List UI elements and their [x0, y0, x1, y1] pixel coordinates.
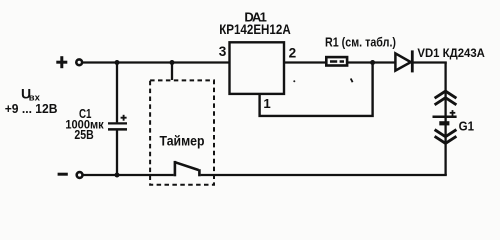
- svg-text:R1 (см. табл.): R1 (см. табл.): [325, 35, 396, 50]
- timer dashed box: [150, 80, 214, 184]
- resistor R1: [326, 57, 347, 65]
- terminal + (input): [56, 56, 82, 68]
- svg-text:G1: G1: [459, 119, 474, 133]
- junction timer stub: [170, 60, 175, 65]
- switch (timer contact): [175, 161, 200, 176]
- diode VD1: [395, 50, 412, 72]
- svg-text:VD1 КД243А: VD1 КД243А: [417, 46, 485, 60]
- junction C1 bottom: [115, 173, 120, 178]
- terminal - (input): [58, 172, 83, 178]
- battery G1 (accumulator with arrows): [433, 91, 457, 143]
- wire pin 2 (DA1 to R1): [284, 61, 326, 63]
- svg-text:2: 2: [289, 45, 297, 60]
- noise speck: [293, 80, 295, 82]
- wire timer stub: [171, 63, 173, 81]
- svg-text:КР142ЕН12А: КР142ЕН12А: [219, 22, 291, 37]
- svg-text:+9 ... 12В: +9 ... 12В: [5, 101, 58, 116]
- wire pin 1 feedback (DA1 bottom to R1 output node): [260, 63, 373, 116]
- op-amp/regulator DA1 box: [230, 42, 285, 94]
- wire C1 upper lead: [116, 63, 118, 123]
- wire diode to right corner: [413, 61, 447, 63]
- noise speck: [351, 79, 353, 83]
- wire C1 lower lead: [116, 131, 118, 176]
- junction R1 output node: [370, 60, 375, 65]
- svg-text:1: 1: [263, 96, 270, 111]
- wire bottom rail right (switch to battery): [201, 174, 447, 176]
- svg-text:25В: 25В: [74, 128, 93, 142]
- wire right vertical lower (battery to bottom rail): [444, 117, 446, 175]
- junction C1 top: [115, 60, 120, 65]
- svg-text:3: 3: [219, 44, 227, 59]
- node Uin label: [21, 86, 41, 104]
- svg-text:Таймер: Таймер: [160, 133, 205, 148]
- wire R1 to diode: [347, 61, 396, 63]
- wire bottom rail left (terminal - to switch): [83, 174, 173, 176]
- wire top rail (input + to DA1 pin 3): [83, 61, 230, 63]
- wire right vertical upper (to battery): [444, 63, 446, 117]
- capacitor C1 (electrolytic, + mark): [108, 115, 127, 130]
